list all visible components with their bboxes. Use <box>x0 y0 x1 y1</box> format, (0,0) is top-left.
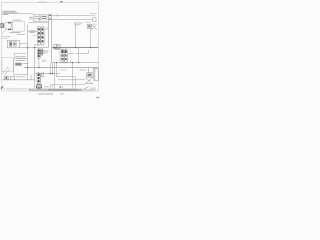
wire: vertical x13.8 <box>13 59 15 75</box>
wire: TS to mid bus <box>19 43 27 45</box>
speck marks below line <box>60 86 62 88</box>
wire: horizontal y73.6 <box>35 73 60 75</box>
junction dot <box>75 47 76 48</box>
label right of C1 <box>44 85 49 88</box>
wire stubs into band <box>50 85 75 89</box>
label below P2 <box>42 59 47 62</box>
fuse block F1/F2 <box>54 45 60 50</box>
header tick <box>60 1 63 2</box>
transformer label box (text block) <box>14 52 26 54</box>
M1 upper terminal <box>8 22 10 24</box>
wire: double horizontal under motor <box>2 36 11 38</box>
wire: vertical bus x27.6 <box>27 25 29 80</box>
wire: horizontal y76.6 <box>56 76 75 78</box>
wire: vertical x54.4 lower <box>53 63 55 85</box>
wire: vertical bus at x51.6 <box>51 14 53 63</box>
terminal box left of M1 <box>1 23 4 27</box>
connector P1 (8-pin plug, mid) <box>37 26 44 45</box>
wire: vertical x56.4 <box>55 63 57 77</box>
label under P1 <box>34 44 40 47</box>
label right of P4 <box>69 52 74 55</box>
label near x78 top <box>74 22 83 25</box>
label between terminal blocks <box>16 75 25 78</box>
wire: into P1 pin3 <box>32 35 37 37</box>
compressor COMP (bottom right) <box>85 73 92 84</box>
label above control box <box>13 19 21 22</box>
P4 housing outline <box>59 49 70 63</box>
outdoor fan motor (top right, X blades) <box>87 23 96 30</box>
contactor K1 <box>33 15 40 21</box>
connector P2 (upper-mid of lower half) <box>37 49 43 59</box>
label left of compressor <box>80 69 87 72</box>
compressor label smudge <box>86 89 93 92</box>
terminal strip far right <box>93 69 98 81</box>
P3 pins <box>38 74 40 83</box>
wire: horizontal y79.8 right <box>58 79 85 81</box>
label right of P2 <box>43 50 48 53</box>
wire: under contactors <box>28 22 48 24</box>
wire: vertical x90.4 from fan down <box>89 28 91 47</box>
junction dots on y67.6 <box>27 67 28 68</box>
wire: vertical x88.4 into compressor <box>87 68 89 73</box>
note text top-left <box>3 11 18 15</box>
junction dots y73.6 <box>50 73 51 74</box>
P4 pins <box>62 50 67 53</box>
wire: vertical x75.6 <box>75 23 77 48</box>
caption text bottom center <box>38 93 53 96</box>
wire: vertical from P2 down <box>38 59 40 68</box>
junction dot at M1 top <box>10 22 11 23</box>
wire: vertical x72.4 <box>71 63 73 85</box>
wire: horizontal y84.8 <box>50 84 85 86</box>
P1 pins <box>38 28 43 42</box>
wire: vertical x75.4 lower <box>74 77 76 85</box>
thermostat box TS <box>7 40 19 48</box>
pin marks between buses <box>49 15 51 20</box>
wire: vertical bus at x48.5 <box>47 14 49 48</box>
wire: horizontal mid line y47.6 left-half <box>19 47 48 49</box>
wire: horizontal y79.8 left <box>2 79 35 81</box>
wire: horizontal y74.6 <box>14 74 28 76</box>
terminal blocks bottom-left <box>4 76 14 80</box>
wire: vertical x52.4 lower <box>51 63 53 74</box>
small box right of P3 <box>41 73 44 76</box>
wire: pointer diagonals lower-left <box>2 67 11 75</box>
tick on upper wire <box>57 14 59 16</box>
wire: long horizontal to right unit, upper <box>52 14 90 16</box>
wire: M1 to control box upper <box>11 22 13 24</box>
run capacitor C1 (bottom mid) <box>36 85 42 89</box>
left lower box outline <box>2 58 13 72</box>
wire: long horizontal y62.6 <box>52 62 99 64</box>
wire: long top horizontal from left to mid <box>2 13 33 15</box>
page mark bottom right <box>97 97 99 98</box>
wire: pointer diagonal from M1 to lower-left <box>2 29 7 35</box>
M1 lower terminal <box>8 28 10 30</box>
wire: M1 to control box lower <box>10 28 12 30</box>
label right of TS <box>16 33 18 35</box>
right top terminal cluster <box>88 18 96 22</box>
label right of P1 <box>45 27 48 30</box>
wire: vertical x31 short <box>30 75 32 80</box>
dark text chunk <box>15 63 21 66</box>
connector P3 (bottom mid plug) <box>37 73 40 84</box>
label under M1 <box>10 31 21 34</box>
wire: vertical x50.2 lower <box>49 63 51 74</box>
wire: horizontal mid line y47.6 right (dark) <box>52 47 98 49</box>
gray scan band at bottom <box>3 88 30 89</box>
header text <box>38 1 47 4</box>
wire: long horizontal to right unit, lower <box>52 19 88 21</box>
wire: vertical x78.6 (upper) <box>78 48 80 63</box>
junction dots on y62.6 <box>56 62 57 63</box>
control box right of M1 <box>13 21 25 31</box>
wire: vertical x88.4 upper <box>87 50 89 53</box>
TS inner contact right <box>14 42 17 47</box>
junction dot x34.6/y47.6 <box>34 47 35 48</box>
contactor K2 <box>41 15 47 21</box>
wire: y53.4 right segment <box>76 52 89 54</box>
wire: M1 left lead <box>3 25 6 27</box>
compressor tail diagonal <box>84 86 89 89</box>
label left of K1 <box>29 16 32 19</box>
junction dot on bus <box>27 47 29 49</box>
junction dot at M1 bottom <box>10 29 11 30</box>
pointer arrow bottom-left <box>1 85 4 89</box>
label right of bus (wire colors) <box>29 30 35 33</box>
P2 pins <box>38 50 43 58</box>
connector P4 (right-mid pair) <box>61 49 67 62</box>
wire: into P1 pin2 <box>28 31 38 33</box>
junction dot <box>90 47 91 48</box>
TS inner contact left <box>9 42 12 47</box>
label on lower net <box>60 69 67 72</box>
wire: long horizontal y67.6 <box>24 67 98 69</box>
border frame (page) <box>1 2 98 91</box>
condenser fan motor M1 (circle) <box>4 22 11 29</box>
wire: vertical x34.6 <box>34 48 36 89</box>
